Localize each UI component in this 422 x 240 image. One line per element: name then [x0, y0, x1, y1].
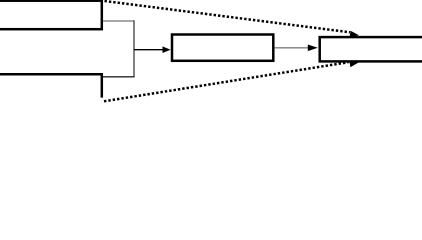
wire from box B right edge to bus — [103, 76, 135, 78]
wire from box A right edge to bus — [103, 20, 135, 22]
arrow from bus into middle box — [134, 49, 163, 51]
wire bus vertical — [133, 20, 135, 77]
wire arrow from middle box to right box — [275, 47, 309, 49]
arrowhead into middle box — [163, 46, 171, 53]
box D (right output block, clipped at right edge) — [320, 37, 422, 61]
box B (lower-left input block, clipped at left and bottom) — [0, 74, 102, 97]
arrowhead of upper dotted line — [350, 31, 359, 38]
box A (upper-left input block, clipped at left edge) — [0, 1, 102, 30]
arrowhead of lower dotted line — [349, 61, 358, 67]
dotted line upper (expansion boundary top) — [105, 1, 351, 32]
arrowhead into right box — [308, 45, 318, 52]
box C (middle processing block) — [172, 35, 273, 61]
dotted line lower (expansion boundary bottom) — [104, 62, 349, 101]
